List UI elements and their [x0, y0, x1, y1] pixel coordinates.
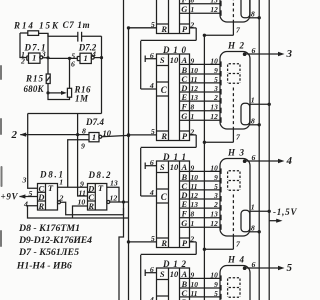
svg-text:2: 2 [59, 194, 64, 203]
svg-text:1: 1 [83, 53, 87, 63]
svg-text:H2: H2 [227, 41, 245, 51]
wire D8.2 Q pin13 up line A [107, 187, 119, 202]
svg-text:R15: R15 [25, 74, 44, 84]
svg-text:680K: 680K [24, 84, 45, 94]
svg-text:10: 10 [103, 128, 112, 138]
svg-text:T: T [98, 183, 104, 193]
svg-text:1M: 1M [75, 94, 89, 104]
svg-text:12: 12 [110, 193, 118, 202]
NOR gate D7.4 [89, 133, 99, 142]
wire D8.2 Qbar pin12 to reset bus [107, 201, 110, 204]
flip-flop D8.2 [88, 184, 107, 211]
svg-text:4: 4 [23, 199, 28, 208]
svg-text:T: T [48, 183, 54, 193]
wire gate1 out [43, 57, 78, 60]
svg-text:D7.4: D7.4 [85, 117, 105, 127]
NOR gate D7.1 [26, 56, 28, 61]
wire pin4 R input loop [28, 206, 129, 218]
wire D8.1 Q out pin1 [58, 186, 88, 188]
svg-text:4: 4 [286, 155, 293, 167]
svg-text:3: 3 [41, 50, 46, 59]
svg-text:5: 5 [29, 189, 33, 198]
svg-text:D12: D12 [162, 259, 187, 269]
svg-text:R14 15K: R14 15K [13, 21, 59, 31]
svg-text:D8.2: D8.2 [88, 170, 112, 180]
svg-text:13: 13 [110, 178, 118, 187]
wire node to D8.2 pin 11 C input [78, 135, 88, 196]
scan edge artifacts [0, 66, 3, 246]
svg-text:1: 1 [32, 53, 36, 63]
svg-text:3: 3 [22, 175, 27, 184]
svg-text:-1,5V: -1,5V [273, 207, 297, 217]
svg-text:+9V: +9V [1, 191, 19, 201]
resistor R15 [47, 33, 49, 74]
wire +9V to D input [20, 196, 38, 198]
counter D11 + display H3 [127, 148, 285, 255]
wire feedback down-left [28, 113, 102, 115]
svg-text:11: 11 [79, 188, 86, 197]
NOR gate D7.2 [76, 56, 78, 61]
svg-text:10: 10 [78, 198, 86, 207]
bus: filament line 1 [258, 0, 260, 300]
svg-text:6: 6 [71, 59, 75, 68]
bus: line A to D9 clock [119, 0, 124, 300]
wire D7.4 out to R bus/D10 R [102, 135, 129, 136]
capacitor C7 [77, 32, 79, 42]
svg-text:D7 - К561ЛЕ5: D7 - К561ЛЕ5 [18, 247, 79, 258]
svg-text:8: 8 [82, 127, 86, 136]
counter D9 + display H1 (partial, top) [127, 0, 285, 40]
svg-text:2: 2 [20, 57, 25, 66]
svg-text:H4: H4 [227, 255, 245, 265]
svg-text:D10: D10 [162, 45, 187, 55]
svg-text:H3: H3 [227, 148, 245, 158]
svg-text:D9-D12-К176ИЕ4: D9-D12-К176ИЕ4 [18, 235, 92, 246]
wire gate2 out to C7 junction [94, 57, 101, 59]
bus: reset line [128, 28, 130, 300]
bus: grid line [203, 35, 205, 300]
svg-text:R: R [37, 201, 44, 211]
svg-text:H1-H4 - ИВ6: H1-H4 - ИВ6 [16, 261, 72, 272]
node: osc out to D7.4 pin8 / terminal 2 [20, 134, 89, 136]
terminal -1.5V arrow [269, 220, 277, 222]
svg-text:R: R [87, 201, 94, 211]
svg-text:D8 - К176ТМ1: D8 - К176ТМ1 [18, 223, 80, 234]
svg-text:C7 1m: C7 1m [63, 20, 90, 30]
svg-text:4: 4 [91, 50, 96, 59]
wire R14/C7 top [20, 32, 28, 34]
counter D12 + display H4 (partial, bottom) [127, 255, 285, 300]
svg-text:1: 1 [59, 178, 63, 187]
wire: D9 R from reset bus [129, 27, 157, 29]
svg-text:9: 9 [80, 180, 84, 189]
resistor R14 [28, 31, 39, 36]
wire D8.1 Qbar pin2 [58, 201, 61, 204]
terminal 2 arrow [20, 133, 26, 137]
resistor R16 (trimmer) with wiper arrow [46, 91, 49, 94]
svg-text:D11: D11 [162, 152, 186, 162]
wire pin10 R to reset loop [73, 206, 88, 218]
svg-text:5: 5 [287, 262, 293, 274]
counter D10 + display H2 [127, 41, 285, 147]
bus: filament line 2 [268, 0, 270, 300]
svg-text:9: 9 [81, 141, 85, 150]
svg-text:1: 1 [92, 132, 96, 142]
svg-text:3: 3 [286, 48, 293, 60]
flip-flop D8.1 [38, 184, 58, 211]
svg-text:2: 2 [11, 129, 18, 141]
